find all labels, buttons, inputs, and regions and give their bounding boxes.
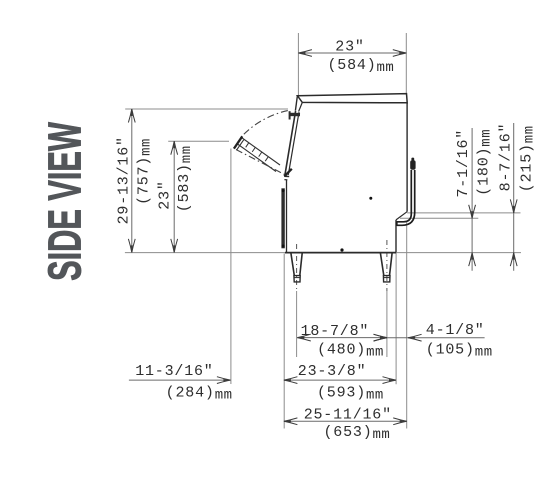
svg-text:SIDE VIEW: SIDE VIEW bbox=[41, 122, 92, 281]
svg-text:11-3/16": 11-3/16" bbox=[135, 363, 213, 380]
svg-text:25-11/16": 25-11/16" bbox=[304, 407, 392, 424]
svg-text:7-1/16": 7-1/16" bbox=[455, 129, 472, 198]
svg-text:(215)mm: (215)mm bbox=[519, 125, 538, 192]
svg-text:(583)mm: (583)mm bbox=[176, 145, 195, 212]
svg-text:8-7/16": 8-7/16" bbox=[497, 123, 514, 192]
svg-text:4-1/8": 4-1/8" bbox=[426, 322, 485, 339]
svg-text:23": 23" bbox=[157, 180, 174, 209]
svg-text:29-13/16": 29-13/16" bbox=[116, 136, 133, 224]
svg-text:(180)mm: (180)mm bbox=[475, 129, 494, 196]
svg-text:(480)mm: (480)mm bbox=[317, 341, 384, 360]
svg-text:(284)mm: (284)mm bbox=[166, 385, 233, 404]
svg-text:23": 23" bbox=[335, 38, 364, 55]
svg-text:(593)mm: (593)mm bbox=[317, 385, 384, 404]
svg-text:(584)mm: (584)mm bbox=[327, 57, 394, 76]
svg-text:(105)mm: (105)mm bbox=[426, 342, 493, 361]
svg-text:18-7/8": 18-7/8" bbox=[301, 323, 370, 340]
svg-text:(757)mm: (757)mm bbox=[136, 138, 155, 205]
svg-text:23-3/8": 23-3/8" bbox=[298, 363, 367, 380]
svg-text:(653)mm: (653)mm bbox=[323, 424, 390, 443]
